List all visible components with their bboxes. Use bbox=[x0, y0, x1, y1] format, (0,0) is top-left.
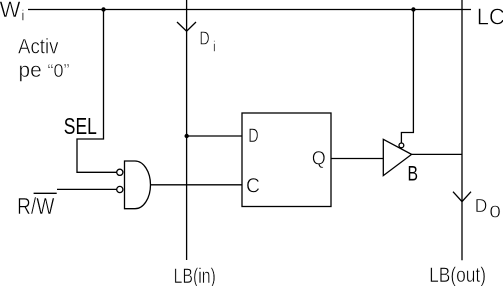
svg-text:Activ: Activ bbox=[18, 35, 59, 59]
svg-text:pe “0”: pe “0” bbox=[19, 58, 70, 82]
svg-text:Q: Q bbox=[312, 148, 326, 170]
svg-text:i: i bbox=[213, 38, 216, 55]
svg-text:SEL: SEL bbox=[64, 113, 97, 139]
svg-text:LB(in): LB(in) bbox=[174, 263, 216, 286]
svg-text:B: B bbox=[408, 161, 419, 185]
svg-text:i: i bbox=[21, 8, 24, 25]
svg-text:C: C bbox=[246, 175, 260, 198]
svg-text:D: D bbox=[199, 27, 209, 48]
svg-text:D: D bbox=[248, 126, 258, 147]
svg-text:0: 0 bbox=[489, 201, 501, 221]
svg-text:LC: LC bbox=[477, 4, 503, 30]
svg-text:D: D bbox=[475, 195, 488, 216]
svg-text:LB(out): LB(out) bbox=[429, 262, 486, 286]
svg-text:R/W: R/W bbox=[17, 193, 55, 219]
svg-text:W: W bbox=[0, 0, 21, 22]
